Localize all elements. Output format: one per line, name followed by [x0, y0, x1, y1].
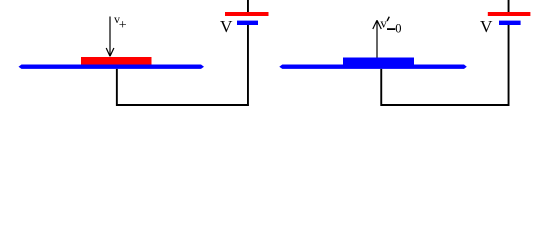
battery B1 positive plate (red)	[225, 12, 269, 16]
ground plane line (right conductor)	[279, 65, 467, 69]
wire from plate P2 down	[380, 69, 382, 104]
label v+	[114, 12, 127, 33]
label v'0	[380, 15, 401, 35]
capacitor plate P2 (blue)	[343, 58, 414, 65]
svg-text:v: v	[380, 15, 387, 30]
battery B2 negative plate (blue)	[499, 21, 521, 25]
wire from plate P1 down	[116, 69, 118, 104]
wire battery lead up (right circuit)	[508, 25, 510, 106]
battery B2 positive plate (red)	[488, 12, 531, 16]
battery B1 negative plate (blue)	[237, 21, 258, 25]
wire battery lead up (left circuit)	[247, 25, 249, 106]
arrow v'0 (upward)	[373, 20, 382, 57]
svg-text:V: V	[220, 17, 233, 36]
wire bottom (right circuit)	[380, 104, 509, 106]
svg-text:V: V	[480, 17, 493, 36]
arrow v+ (downward)	[106, 17, 114, 57]
svg-text:+: +	[119, 18, 127, 33]
wire battery top lead (left)	[247, 0, 249, 12]
capacitor plate P1 (red, charged +)	[81, 57, 152, 65]
wire bottom (left circuit)	[116, 104, 249, 106]
svg-text:0: 0	[395, 22, 401, 36]
wire battery top lead (right)	[508, 0, 510, 12]
ground plane line (left conductor)	[19, 65, 205, 69]
